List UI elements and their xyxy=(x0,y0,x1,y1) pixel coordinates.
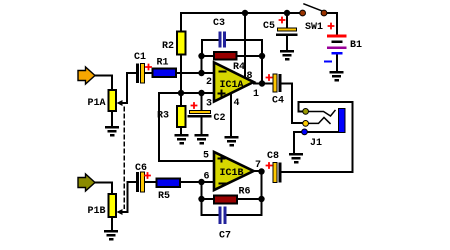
wire C7 left branch xyxy=(202,199,220,215)
capacitor C2 xyxy=(188,103,226,124)
wire pin4 to ground xyxy=(230,93,232,136)
wire R3 bottom lead to ground xyxy=(180,127,182,134)
resistor R5 xyxy=(157,179,181,203)
wire jack top contact zigzag xyxy=(308,111,335,117)
svg-text:5: 5 xyxy=(203,151,209,162)
capacitor C7 xyxy=(219,207,232,242)
wire R5 to pin6 xyxy=(180,181,214,183)
wire C1 left to wiper A xyxy=(122,73,136,103)
resistor R4 xyxy=(214,52,245,73)
wire C6 to R5 xyxy=(144,181,157,183)
wire bias rail to pin3 xyxy=(159,92,214,94)
input connector arrow B xyxy=(78,174,95,191)
wire jack sleeve right under barrel xyxy=(307,131,344,133)
ground R3 xyxy=(175,134,189,145)
svg-text:C1: C1 xyxy=(134,52,146,63)
ground C2 xyxy=(195,134,209,145)
wire C4 right to jack tip xyxy=(281,84,303,124)
battery B1 xyxy=(325,24,362,62)
capacitor C8 xyxy=(267,151,282,183)
svg-text:SW1: SW1 xyxy=(305,22,323,33)
svg-text:C7: C7 xyxy=(219,231,231,242)
svg-text:3: 3 xyxy=(206,99,212,110)
node junction output IC1A xyxy=(259,80,265,86)
svg-text:R3: R3 xyxy=(157,111,169,122)
node junction B R4 right xyxy=(259,53,265,59)
wire jack sleeve to ground xyxy=(294,132,302,153)
svg-text:IC1A: IC1A xyxy=(220,80,244,91)
resistor R6 xyxy=(214,187,251,204)
svg-text:C4: C4 xyxy=(272,96,284,107)
potentiometer P1A xyxy=(88,90,123,111)
wire input A arrow to pot top xyxy=(95,76,112,91)
wire battery bottom to ground xyxy=(336,54,338,72)
svg-text:2: 2 xyxy=(206,77,212,88)
node junction pin6 xyxy=(198,179,204,185)
wire C2 top lead xyxy=(201,93,203,110)
wire jack middle contact zigzag xyxy=(308,118,330,124)
ground P1A xyxy=(105,126,119,137)
wire R2 bottom to bias rail xyxy=(180,55,182,93)
wire C5 top xyxy=(286,13,288,28)
svg-text:R6: R6 xyxy=(239,187,251,198)
capacitor C6 xyxy=(135,163,150,192)
ground pin4 xyxy=(225,136,239,147)
svg-text:P1B: P1B xyxy=(88,206,106,217)
ground J1 xyxy=(289,153,303,164)
wire C7 right branch xyxy=(227,199,262,215)
wire IC1A output to C4 xyxy=(254,83,273,85)
capacitor C5 xyxy=(263,18,298,37)
wire P1B bottom to ground xyxy=(111,217,113,230)
svg-text:C6: C6 xyxy=(135,163,147,174)
wire C5 to ground xyxy=(286,37,288,51)
wire C2 bottom lead to ground xyxy=(201,118,203,134)
svg-text:6: 6 xyxy=(204,172,210,183)
svg-text:1: 1 xyxy=(253,89,259,100)
svg-text:J1: J1 xyxy=(310,138,322,149)
svg-text:C8: C8 xyxy=(267,151,279,162)
wire input B arrow to pot top xyxy=(95,183,112,195)
wire node B to output node xyxy=(261,56,263,84)
capacitor C3 xyxy=(213,18,226,48)
wire top supply rail xyxy=(181,12,299,14)
wire R1 to pin2 xyxy=(176,72,214,74)
wire C8 to jack wire xyxy=(282,171,353,173)
wire node A to pin2 rail xyxy=(201,56,203,73)
svg-text:R2: R2 xyxy=(162,41,174,52)
svg-text:C5: C5 xyxy=(263,21,275,32)
wire C3 right branch xyxy=(226,40,262,56)
switch SW1 xyxy=(300,4,327,33)
wire R2 top xyxy=(180,13,182,32)
svg-text:IC1B: IC1B xyxy=(220,168,244,179)
node junction R6 right xyxy=(258,196,264,202)
svg-text:8: 8 xyxy=(247,71,253,82)
svg-text:7: 7 xyxy=(255,160,261,171)
wire C1 to R1 xyxy=(144,72,153,74)
wire pin6 node down to R6 left xyxy=(201,182,203,199)
wire ganged pot dashed link xyxy=(123,107,125,208)
wire R3 top lead xyxy=(180,93,182,106)
wire P1A bottom to ground xyxy=(111,111,113,126)
svg-text:C2: C2 xyxy=(214,113,226,124)
wire bias rail drop to pin5 xyxy=(159,93,214,161)
wire R4 rail node A to node B xyxy=(202,55,262,57)
node junction pin7 xyxy=(258,168,264,174)
wire C3 left branch xyxy=(202,40,219,56)
svg-text:B1: B1 xyxy=(350,40,362,51)
wire C6 left to wiper B xyxy=(122,182,136,212)
node junction C2 top xyxy=(198,90,204,96)
capacitor C1 xyxy=(134,52,151,83)
node junction top rail C5 xyxy=(284,10,290,16)
svg-text:P1A: P1A xyxy=(88,98,106,109)
op-amp IC1A xyxy=(214,63,254,102)
node junction top rail pin8 xyxy=(242,10,248,16)
ground P1B xyxy=(104,230,118,241)
svg-text:R5: R5 xyxy=(158,191,170,202)
svg-text:4: 4 xyxy=(234,98,240,109)
ground B1 xyxy=(330,71,344,82)
jack J1 xyxy=(302,109,345,150)
wire pin7 down to R6 right xyxy=(261,172,263,200)
node junction R3 top xyxy=(178,90,184,96)
node junction pin2 xyxy=(198,70,204,76)
potentiometer P1B xyxy=(88,194,123,217)
resistor R2 xyxy=(162,32,186,55)
capacitor C4 xyxy=(267,74,285,107)
svg-text:R1: R1 xyxy=(157,58,169,69)
wire pin8 drop xyxy=(244,13,246,79)
wire R6 rail xyxy=(202,198,262,200)
input connector arrow A xyxy=(78,67,95,84)
resistor R3 xyxy=(157,106,186,127)
wire SW1 right to battery top xyxy=(327,13,337,35)
ground C5 xyxy=(280,50,294,61)
op-amp IC1B xyxy=(214,152,254,190)
node junction R6 left xyxy=(198,196,204,202)
node junction A R4 left xyxy=(198,53,204,59)
wire jack ring contact to C8 output xyxy=(299,102,353,172)
resistor R1 xyxy=(153,58,177,78)
svg-text:C3: C3 xyxy=(213,18,225,29)
wire IC1B output pin7 xyxy=(254,170,262,172)
